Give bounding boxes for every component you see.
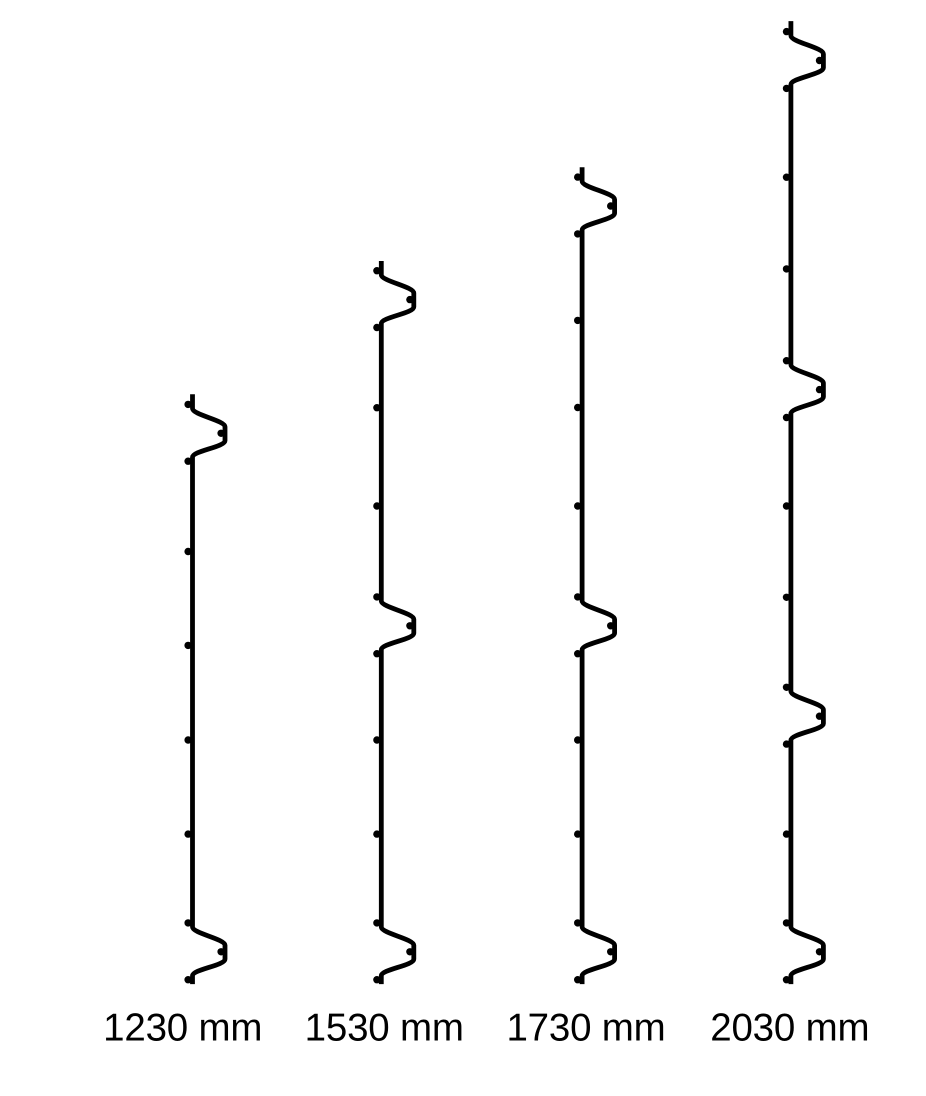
- fixing pin dots on rail 1530 mm: [373, 267, 413, 983]
- fixing pin dots on rail 1730 mm: [574, 173, 614, 983]
- svg-text:1230 mm: 1230 mm: [103, 1007, 262, 1050]
- svg-text:1530 mm: 1530 mm: [305, 1007, 464, 1050]
- wall rail profile 2030 mm (shaft with wave bumps): [791, 21, 824, 984]
- svg-text:2030 mm: 2030 mm: [710, 1007, 869, 1050]
- svg-text:1730 mm: 1730 mm: [506, 1007, 665, 1050]
- wall rail profile 1530 mm (shaft with wave bumps): [381, 261, 414, 984]
- wall rail profile 1230 mm (shaft with wave bumps): [193, 394, 226, 984]
- wall rail profile 1730 mm (shaft with wave bumps): [582, 167, 615, 984]
- fixing pin dots on rail 1230 mm: [184, 401, 224, 984]
- fixing pin dots on rail 2030 mm: [783, 28, 823, 984]
